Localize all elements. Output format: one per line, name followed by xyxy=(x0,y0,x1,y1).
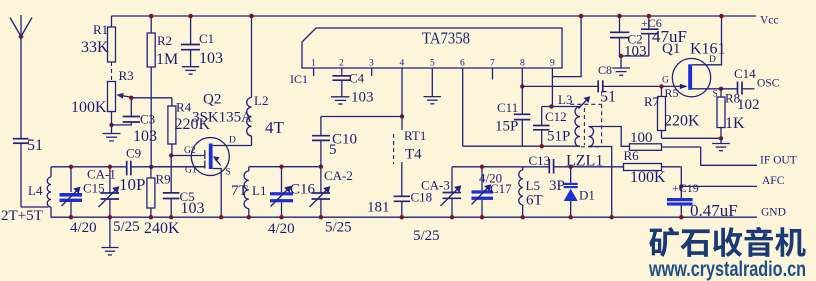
capacitor C2 103 xyxy=(610,14,647,60)
ground under R3 xyxy=(103,134,121,141)
wire IF tank rail (L1 to CA-2/C10) xyxy=(249,166,321,168)
svg-text:3P: 3P xyxy=(549,178,565,194)
svg-text:51P: 51P xyxy=(547,129,570,145)
pin 4 xyxy=(400,59,405,117)
ground under C1 xyxy=(182,67,199,74)
variable capacitor C17 xyxy=(472,165,513,220)
variable capacitor C16 xyxy=(268,165,316,238)
potentiometer R3 100K xyxy=(71,68,134,133)
svg-text:Q2: Q2 xyxy=(203,92,221,108)
svg-text:L1: L1 xyxy=(252,183,266,198)
node AFC junction xyxy=(679,184,683,188)
svg-text:5/25: 5/25 xyxy=(413,228,440,244)
svg-text:4: 4 xyxy=(400,59,405,69)
capacitor C10 value 5 xyxy=(312,117,357,167)
resistor 100 ohm xyxy=(630,130,701,150)
svg-text:Q1: Q1 xyxy=(662,41,680,57)
svg-text:6T: 6T xyxy=(526,193,543,209)
inductor L2 4T xyxy=(247,14,285,146)
pin 9 xyxy=(550,59,555,107)
capacitor C3 103 xyxy=(112,98,158,145)
node wiper junction xyxy=(129,96,133,100)
ground under C2/C6 xyxy=(612,56,630,75)
svg-text:7T: 7T xyxy=(231,183,248,199)
wire C2/C6 ground tee xyxy=(620,55,649,57)
svg-text:+C19: +C19 xyxy=(672,181,699,195)
resistor R6 100K xyxy=(624,148,682,186)
capacitor C4 103 on pin 2 xyxy=(332,71,373,106)
svg-text:R5: R5 xyxy=(665,86,679,100)
ground under C4 xyxy=(331,97,350,104)
svg-text:R8: R8 xyxy=(725,91,740,106)
svg-text:103: 103 xyxy=(624,44,647,60)
svg-text:4/20: 4/20 xyxy=(268,221,295,237)
svg-text:L2: L2 xyxy=(254,93,268,108)
svg-text:R4: R4 xyxy=(176,100,192,115)
svg-text:240K: 240K xyxy=(144,220,180,237)
svg-text:IF OUT: IF OUT xyxy=(760,155,797,167)
pin 6 xyxy=(460,59,465,147)
svg-text:1M: 1M xyxy=(156,51,178,68)
capacitor C6 47uF electrolytic xyxy=(641,14,687,56)
resistor R7/R5 220K xyxy=(644,84,700,138)
svg-text:102: 102 xyxy=(737,97,760,113)
wire LZL1 node to R6 xyxy=(571,166,624,168)
wire R7/R8 bottom tee xyxy=(662,137,722,139)
capacitor C14 102 (series to OSC) xyxy=(721,66,760,113)
ground on pin 5 xyxy=(424,97,442,104)
svg-text:C16: C16 xyxy=(290,182,316,198)
wire pin4 branch to C10 xyxy=(321,116,402,118)
trimmer capacitor CA-3 xyxy=(421,167,461,220)
svg-text:G: G xyxy=(662,76,669,86)
svg-text:T4: T4 xyxy=(405,147,422,163)
trimmer capacitor CA-2 xyxy=(310,165,353,236)
bottom ground bus wire xyxy=(51,216,758,218)
capacitor C7 value 51 xyxy=(13,137,43,207)
svg-text:K161: K161 xyxy=(690,41,726,58)
svg-text:R2: R2 xyxy=(157,33,172,48)
capacitor C13 3P (series) xyxy=(529,153,571,194)
capacitor C5 103 xyxy=(163,156,205,220)
wire R6 to C19/AFC xyxy=(680,167,682,198)
svg-text:2T+5T: 2T+5T xyxy=(1,208,43,224)
svg-text:C3: C3 xyxy=(140,112,155,127)
op-amp IC1 TA7358 body xyxy=(290,28,562,86)
svg-text:5/25: 5/25 xyxy=(325,220,352,236)
svg-text:2: 2 xyxy=(339,59,344,69)
capacitor C19 0.47uF electrolytic xyxy=(667,181,738,220)
wire oscillator tank bus (pin6 to L3) xyxy=(463,145,580,147)
svg-text:CA-2: CA-2 xyxy=(324,168,353,183)
svg-text:103: 103 xyxy=(351,90,374,106)
svg-text:CA-1: CA-1 xyxy=(87,167,116,182)
svg-text:RT1: RT1 xyxy=(404,128,426,143)
svg-text:3SK135A: 3SK135A xyxy=(192,110,252,126)
transformer L3 primary winding xyxy=(558,92,580,147)
transistor Q2 3SK135A dual-gate MOSFET xyxy=(151,92,252,220)
svg-text:C12: C12 xyxy=(545,109,567,124)
wire junction to L3 top xyxy=(542,106,580,108)
svg-text:D: D xyxy=(229,136,236,146)
svg-text:www.crystalradio.cn: www.crystalradio.cn xyxy=(648,258,806,281)
resistor R1 33K xyxy=(81,16,116,82)
svg-text:15P: 15P xyxy=(495,119,518,135)
svg-text:9: 9 xyxy=(550,59,555,69)
svg-text:R9: R9 xyxy=(156,172,171,187)
svg-text:220K: 220K xyxy=(664,113,700,130)
resistor R2 1M xyxy=(147,14,178,169)
svg-text:GND: GND xyxy=(761,207,786,219)
inductor L1 7T xyxy=(231,167,266,220)
wire pin4 down segment xyxy=(401,117,403,131)
svg-text:CA-3: CA-3 xyxy=(421,178,450,193)
ground under bottom bus xyxy=(102,217,119,255)
svg-text:C1: C1 xyxy=(199,31,214,46)
svg-text:OSC: OSC xyxy=(757,78,780,90)
svg-text:1: 1 xyxy=(311,59,316,69)
node ground tee junction xyxy=(619,54,623,58)
svg-text:R7: R7 xyxy=(644,94,660,109)
capacitor C12 51P xyxy=(533,107,570,149)
svg-text:R6: R6 xyxy=(624,148,640,163)
resistor R9 240K xyxy=(144,167,180,237)
svg-text:D1: D1 xyxy=(579,188,595,203)
transformer L3 core dashed box and tuning arrow xyxy=(570,96,601,147)
transistor Q1 K161 JFET xyxy=(662,14,726,100)
antenna xyxy=(10,15,32,139)
svg-text:33K: 33K xyxy=(81,39,109,56)
svg-text:3: 3 xyxy=(369,59,374,69)
node pin8 junction xyxy=(520,84,524,88)
svg-text:G2: G2 xyxy=(184,146,196,156)
svg-text:100: 100 xyxy=(630,130,653,146)
svg-text:C9: C9 xyxy=(126,146,141,161)
svg-text:103: 103 xyxy=(199,50,223,67)
wire antenna tap to L4 xyxy=(21,206,49,208)
resistor R8 1K xyxy=(717,89,745,139)
svg-text:R3: R3 xyxy=(119,68,134,83)
resistor R4 220K xyxy=(168,98,211,158)
wire pin8 to C8 xyxy=(522,85,598,87)
wire input rail left (L4 top to C9) xyxy=(51,166,127,168)
svg-text:1K: 1K xyxy=(725,115,745,132)
node pin4 junction xyxy=(400,114,404,118)
pin 7 xyxy=(490,59,495,80)
svg-text:C4: C4 xyxy=(349,71,365,86)
capacitor C11 15P xyxy=(495,100,530,135)
svg-text:IC1: IC1 xyxy=(290,72,308,86)
capacitor C9 (series in rail) xyxy=(126,146,205,176)
pin 2 xyxy=(339,59,344,76)
svg-text:C14: C14 xyxy=(734,66,756,81)
top Vcc bus wire xyxy=(112,15,757,17)
svg-text:10P: 10P xyxy=(119,175,145,194)
svg-text:4T: 4T xyxy=(265,118,285,137)
trimmer capacitor CA-1 xyxy=(87,165,145,235)
wire to IF OUT xyxy=(701,147,757,165)
svg-text:TA7358: TA7358 xyxy=(422,29,470,48)
capacitor C8 51 (series) xyxy=(598,63,662,106)
wire pin9 up to Vcc bus xyxy=(552,16,581,77)
node pin9/C12 junction xyxy=(549,104,553,108)
inductor L4 2T+5T xyxy=(1,167,51,224)
svg-text:G1: G1 xyxy=(185,166,197,176)
svg-text:51: 51 xyxy=(27,137,43,154)
svg-text:100K: 100K xyxy=(71,99,107,116)
wire to AFC xyxy=(681,185,757,187)
watermark logo text xyxy=(649,227,805,257)
svg-text:100K: 100K xyxy=(630,169,666,186)
pin 1 xyxy=(311,59,316,77)
wire CA-3/C17/C13 node rail xyxy=(452,166,549,168)
capacitor C18 181 xyxy=(367,162,440,244)
resonator RT1 T4 dashed link xyxy=(394,128,427,164)
inductor L5 6T xyxy=(519,167,543,220)
svg-text:L5: L5 xyxy=(526,178,540,193)
svg-text:51: 51 xyxy=(600,89,616,106)
svg-text:103: 103 xyxy=(181,200,205,217)
transformer L3 secondary winding xyxy=(589,127,630,220)
ground under R7/R8 xyxy=(712,138,730,150)
svg-text:L4: L4 xyxy=(28,183,43,198)
svg-text:C13: C13 xyxy=(529,153,551,168)
pin 8 xyxy=(520,59,525,147)
svg-text:5: 5 xyxy=(329,142,337,158)
svg-text:4/20: 4/20 xyxy=(70,220,97,236)
svg-text:Vcc: Vcc xyxy=(760,15,779,27)
pin 5 xyxy=(430,59,435,97)
svg-text:L3: L3 xyxy=(558,92,572,107)
varactor diode D1 xyxy=(564,167,595,220)
svg-text:R1: R1 xyxy=(93,22,108,37)
capacitor C1 103 xyxy=(181,14,223,67)
svg-text:5/25: 5/25 xyxy=(113,219,140,235)
svg-text:AFC: AFC xyxy=(762,175,785,187)
node Vcc/pin9 junction xyxy=(579,14,584,19)
node LZL1 junction xyxy=(569,165,573,169)
svg-text:0.47uF: 0.47uF xyxy=(690,201,738,220)
svg-text:8: 8 xyxy=(520,59,525,69)
svg-text:6: 6 xyxy=(460,59,465,69)
svg-text:C17: C17 xyxy=(490,181,512,196)
svg-text:103: 103 xyxy=(133,128,157,145)
svg-text:5: 5 xyxy=(430,59,435,69)
svg-text:C8: C8 xyxy=(598,63,612,77)
svg-text:7: 7 xyxy=(490,59,495,69)
wire wiper to R4 top xyxy=(131,97,172,99)
svg-text:C11: C11 xyxy=(497,100,518,115)
svg-text:S: S xyxy=(226,168,231,178)
svg-text:181: 181 xyxy=(367,200,390,216)
variable capacitor C15 xyxy=(60,165,105,236)
pin 3 xyxy=(369,59,374,77)
node R8 ground junction xyxy=(719,136,723,140)
